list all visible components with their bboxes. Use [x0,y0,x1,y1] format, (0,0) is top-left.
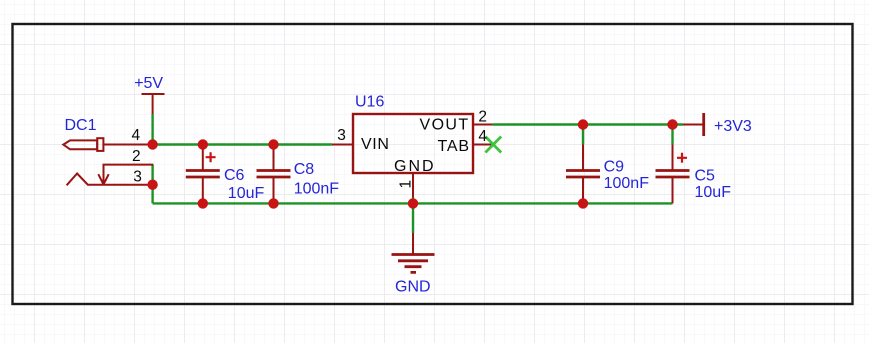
svg-text:C9: C9 [604,159,625,176]
svg-text:4: 4 [132,127,141,144]
wire bottom rail [153,202,673,204]
connector DC1 plug pin4 [63,140,97,149]
capacitor C8 leads [273,145,275,204]
sheet border [13,24,853,304]
svg-text:2: 2 [478,109,487,126]
thicker red strokes: cap plates, gnd bars, +3V3 bar [186,113,704,272]
wire DC1 pin3 drop to bottom rail [151,185,153,204]
svg-text:+3V3: +3V3 [714,118,752,135]
plus sign C6 [206,152,216,162]
ground symbol stem [412,233,414,255]
connector DC1 collar [97,138,103,151]
capacitor C5 leads [672,145,674,204]
power symbol +3V3 bar [702,113,705,136]
wire C9 top lead [582,125,584,145]
svg-text:C5: C5 [695,168,716,185]
svg-text:U16: U16 [355,94,384,111]
junction C9 bottom [578,198,588,208]
svg-text:VIN: VIN [361,136,389,153]
connector DC1 pin2 lead [104,165,154,185]
junction U16 pin1 [408,198,418,208]
junction C8 top [268,139,278,149]
power symbol +5V bar [142,94,165,114]
connector DC1 pin4 lead [103,144,152,146]
power symbol +3V3 lead [683,124,704,126]
svg-text:10uF: 10uF [695,184,732,201]
svg-text:GND: GND [394,158,436,175]
no-connect X on U16 pin4 [485,137,501,153]
svg-text:1: 1 [398,180,415,189]
wire U16 pin1 to bottom rail [412,198,414,204]
U16 pin2 stub [473,124,492,126]
plus sign C5 [677,153,687,163]
wire C5 top lead [671,125,673,145]
svg-text:3: 3 [133,169,142,186]
junction C9 top [578,119,588,129]
svg-text:3: 3 [337,127,346,144]
capacitor C9 plates [566,171,600,178]
U16 pin4 stub [473,144,492,146]
wire GND stem [412,203,414,233]
connector DC1 pin3 zigzag and lead [67,174,153,186]
capacitor C8 plates [257,171,291,178]
junction C8 bottom [268,198,278,208]
svg-text:TAB: TAB [438,138,470,155]
svg-text:C8: C8 [294,161,315,178]
svg-text:VOUT: VOUT [420,117,470,134]
junction DC1 pin4 / +5V [147,139,157,149]
junction dots [147,119,677,208]
wire +5V stem [151,114,153,145]
regulator U16 body [353,114,473,173]
junction C6 bottom [198,198,208,208]
svg-text:100nF: 100nF [294,181,340,198]
svg-text:GND: GND [395,279,431,296]
svg-text:10uF: 10uF [228,185,265,202]
ground symbol bars [392,255,435,273]
U16 pin1 stub [412,173,414,198]
svg-text:4: 4 [478,128,487,145]
wire top-left rail node VIN-IN [153,143,332,145]
capacitor C5 plates [656,171,690,178]
capacitor C6 plates [186,171,220,178]
junction DC1 pin3 [147,180,157,190]
junction C5 top [667,119,677,129]
svg-text:2: 2 [132,148,141,165]
capacitor C9 leads [582,145,584,204]
svg-text:C6: C6 [224,167,245,184]
capacitor C6 leads [202,145,204,204]
connector DC1 switch arrowhead [98,174,108,184]
svg-text:+5V: +5V [134,75,163,92]
junction C6 top [198,139,208,149]
svg-text:100nF: 100nF [604,175,650,192]
wire VOUT rail [492,123,683,125]
wire DC1 pin2 drop [151,165,153,185]
svg-text:DC1: DC1 [65,117,97,134]
U16 pin3 stub [332,144,353,146]
